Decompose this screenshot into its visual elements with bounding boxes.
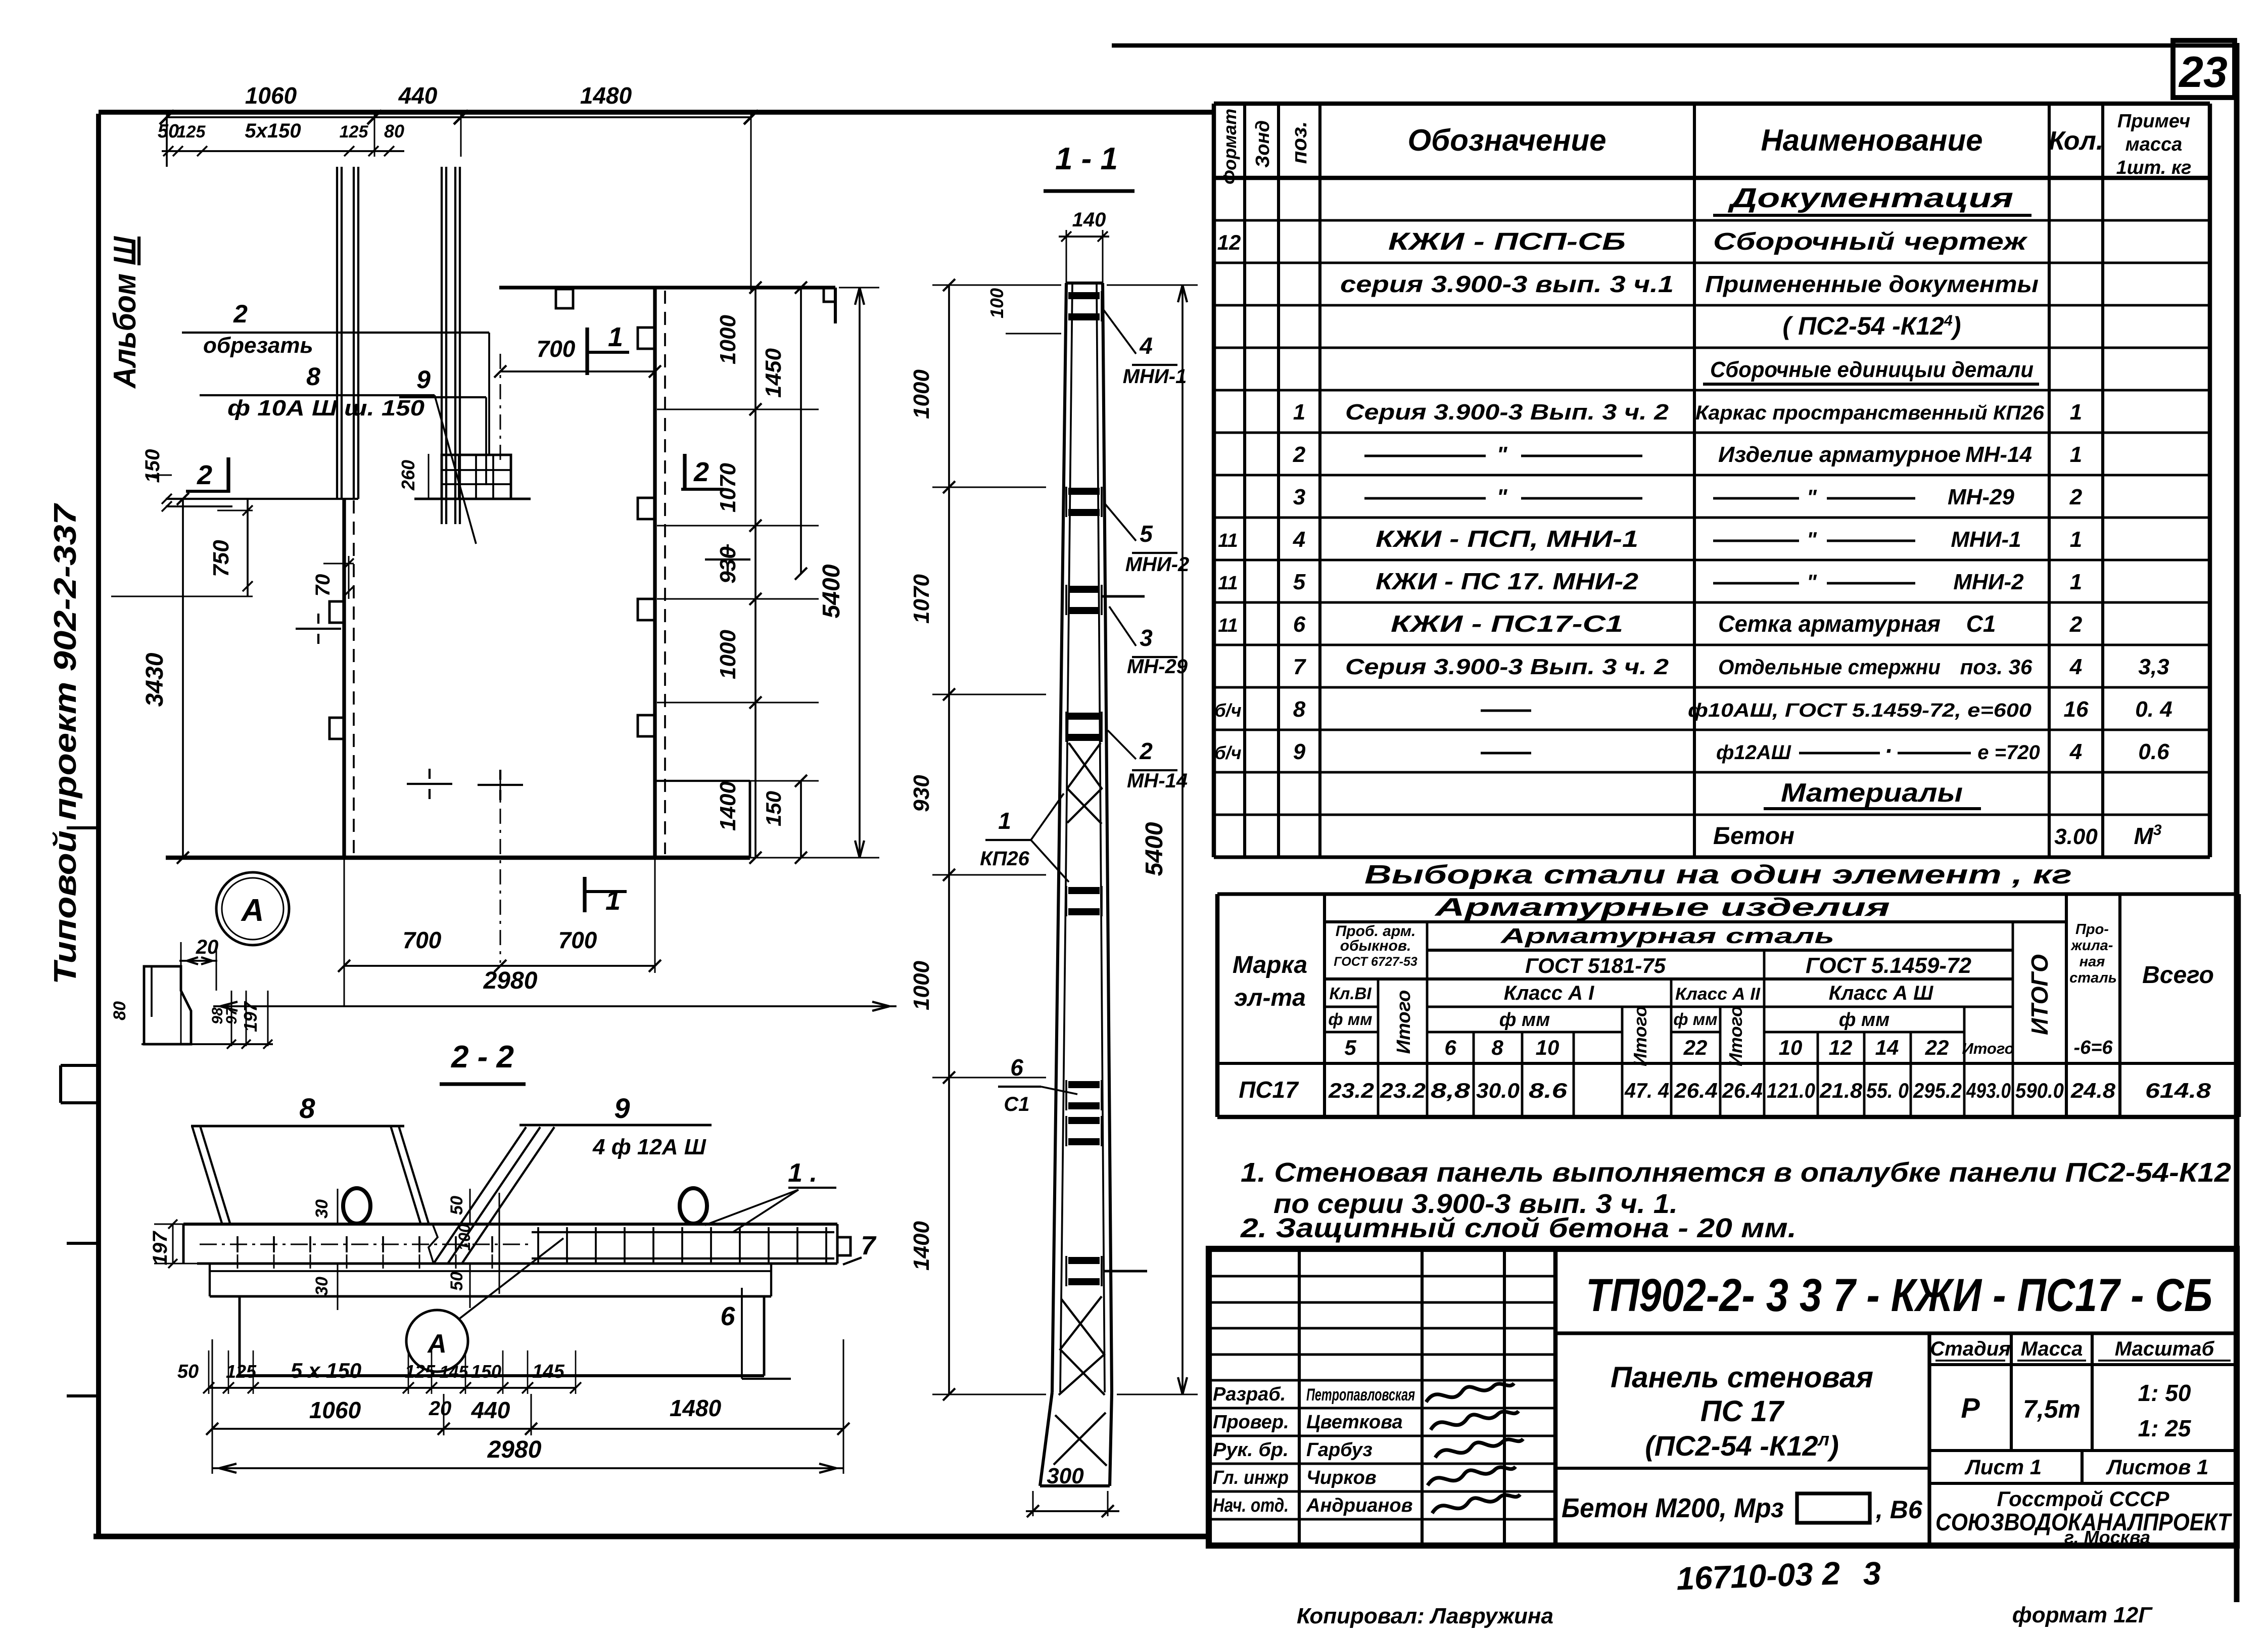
svg-text:1060: 1060 <box>245 82 297 109</box>
svg-text:5400: 5400 <box>818 564 845 618</box>
svg-text:1480: 1480 <box>580 82 632 109</box>
svg-text:КП26: КП26 <box>980 848 1030 870</box>
svg-text:Типовой проект 902-2-337: Типовой проект 902-2-337 <box>48 503 83 985</box>
svg-text:12: 12 <box>1217 230 1241 254</box>
svg-text:Марка: Марка <box>1233 952 1307 978</box>
svg-text:8: 8 <box>306 362 320 391</box>
svg-text:2: 2 <box>197 460 212 490</box>
svg-text:Разраб.: Разраб. <box>1213 1384 1286 1405</box>
svg-text:140: 140 <box>1072 209 1106 231</box>
svg-text:700: 700 <box>537 336 576 362</box>
svg-text:ГОСТ 6727-53: ГОСТ 6727-53 <box>1334 955 1417 969</box>
svg-text:ф 10А Ш ш. 150: ф 10А Ш ш. 150 <box>227 396 425 421</box>
svg-text:4: 4 <box>2069 655 2082 679</box>
svg-text:1шт. кг: 1шт. кг <box>2116 157 2192 178</box>
svg-text:614.8: 614.8 <box>2145 1079 2211 1102</box>
svg-text:1070: 1070 <box>909 574 934 624</box>
svg-text:3: 3 <box>1862 1555 1881 1592</box>
svg-text:300: 300 <box>1047 1464 1084 1488</box>
svg-text:145: 145 <box>532 1361 564 1382</box>
svg-text:2980: 2980 <box>487 1436 542 1463</box>
svg-text:Стадия: Стадия <box>1930 1338 2010 1360</box>
svg-text:8: 8 <box>1293 697 1306 722</box>
svg-text:Панель стеновая: Панель стеновая <box>1611 1361 1873 1394</box>
svg-text:930: 930 <box>909 775 934 812</box>
svg-text:6: 6 <box>1444 1036 1456 1059</box>
svg-text:ПС17: ПС17 <box>1239 1077 1299 1103</box>
svg-text:3: 3 <box>1293 485 1305 509</box>
svg-text:10: 10 <box>1536 1036 1560 1059</box>
svg-text:Масштаб: Масштаб <box>2115 1338 2215 1360</box>
svg-text:(ПС2-54 -К12л): (ПС2-54 -К12л) <box>1645 1429 1838 1462</box>
svg-text:11: 11 <box>1218 530 1238 551</box>
svg-text:7: 7 <box>1293 655 1307 679</box>
svg-text:Кол.: Кол. <box>2049 126 2104 156</box>
svg-text:5: 5 <box>1140 521 1153 547</box>
svg-text:5 х 150: 5 х 150 <box>291 1359 361 1382</box>
svg-text:Кл.ВI: Кл.ВI <box>1330 984 1372 1003</box>
svg-text:440: 440 <box>471 1397 510 1423</box>
svg-text:ф мм: ф мм <box>1499 1009 1550 1031</box>
svg-text:-6=6: -6=6 <box>2073 1037 2113 1058</box>
svg-text:Материалы: Материалы <box>1781 778 1963 808</box>
svg-text:2: 2 <box>1139 738 1153 764</box>
svg-text:МНИ-2: МНИ-2 <box>1125 553 1190 576</box>
svg-text:4: 4 <box>2069 739 2082 764</box>
svg-text:Гарбуз: Гарбуз <box>1306 1439 1373 1461</box>
svg-text:1: 1 <box>998 808 1011 834</box>
svg-text:1060: 1060 <box>309 1397 361 1423</box>
svg-text:Госстрой СССР: Госстрой СССР <box>1997 1487 2169 1511</box>
svg-text:": " <box>1807 528 1817 551</box>
svg-text:20: 20 <box>429 1397 452 1420</box>
svg-text:1: 1 <box>2070 400 2082 425</box>
svg-text:590.0: 590.0 <box>2015 1079 2064 1102</box>
svg-text:С1: С1 <box>1966 611 1996 637</box>
svg-text:МНИ-1: МНИ-1 <box>1123 365 1187 388</box>
svg-text:Формат: Формат <box>1219 109 1240 184</box>
svg-text:Р: Р <box>1961 1392 1980 1424</box>
svg-text:11: 11 <box>1218 615 1238 636</box>
svg-text:1480: 1480 <box>670 1395 722 1421</box>
svg-text:50: 50 <box>447 1272 466 1291</box>
svg-text:7: 7 <box>861 1231 877 1260</box>
svg-text:1000: 1000 <box>716 630 740 679</box>
svg-text:Отдельные стержни: Отдельные стержни <box>1718 655 1941 679</box>
svg-text:125: 125 <box>340 122 369 142</box>
svg-text:МН-14: МН-14 <box>1965 442 2032 467</box>
svg-text:7,5т: 7,5т <box>2023 1395 2081 1423</box>
svg-text:1: 1 <box>2070 570 2082 594</box>
svg-text:260: 260 <box>398 460 418 491</box>
svg-text:121.0: 121.0 <box>1767 1079 1815 1102</box>
svg-text:ная: ная <box>2080 954 2105 970</box>
svg-text:Зонд: Зонд <box>1252 120 1273 168</box>
svg-text:5400: 5400 <box>1141 822 1168 876</box>
svg-text:145: 145 <box>440 1363 469 1382</box>
svg-text:55. 0: 55. 0 <box>1866 1079 1909 1102</box>
svg-text:80: 80 <box>384 121 404 142</box>
svg-text:МНИ-1: МНИ-1 <box>1951 527 2021 552</box>
svg-text:": " <box>1807 485 1817 509</box>
svg-text:": " <box>1497 485 1508 509</box>
svg-text:9: 9 <box>614 1092 630 1124</box>
svg-text:Цветкова: Цветкова <box>1306 1412 1403 1433</box>
svg-text:9: 9 <box>416 365 431 394</box>
svg-text:3: 3 <box>1140 625 1153 651</box>
svg-text:2: 2 <box>693 457 709 487</box>
svg-text:ф12АШ: ф12АШ <box>1716 741 1791 764</box>
svg-text:700: 700 <box>403 927 442 953</box>
svg-text:30: 30 <box>312 1199 332 1219</box>
svg-text:2: 2 <box>2069 612 2083 637</box>
svg-text:1: 1 <box>1293 400 1305 425</box>
svg-text:МНИ-2: МНИ-2 <box>1953 570 2024 594</box>
svg-text:1: 25: 1: 25 <box>2138 1415 2192 1441</box>
svg-text:Документация: Документация <box>1728 183 2013 213</box>
svg-text:Рук. бр.: Рук. бр. <box>1213 1439 1289 1461</box>
svg-text:1: 1 <box>2070 442 2082 467</box>
svg-text:Петропавловская: Петропавловская <box>1306 1385 1415 1405</box>
svg-text:8: 8 <box>1491 1036 1503 1059</box>
svg-text:б/ч: б/ч <box>1214 700 1241 721</box>
svg-text:Итого: Итого <box>1725 1006 1746 1066</box>
svg-text:23.2: 23.2 <box>1328 1079 1374 1102</box>
svg-text:Нач. отд.: Нач. отд. <box>1213 1495 1289 1516</box>
svg-text:21.8: 21.8 <box>1819 1079 1863 1102</box>
svg-text:30: 30 <box>312 1277 332 1296</box>
svg-text:26.4: 26.4 <box>1722 1079 1763 1102</box>
svg-text:70: 70 <box>312 574 334 597</box>
svg-text:Сборочный чертеж: Сборочный чертеж <box>1713 228 2028 255</box>
svg-text:100: 100 <box>455 1224 474 1251</box>
svg-text:750: 750 <box>209 540 233 577</box>
svg-text:100: 100 <box>986 288 1007 318</box>
svg-text:Сетка арматурная: Сетка арматурная <box>1718 611 1941 637</box>
svg-text:( ПС2-54 -К124): ( ПС2-54 -К124) <box>1783 312 1961 340</box>
svg-text:1000: 1000 <box>716 315 740 364</box>
svg-text:Изделие арматурное: Изделие арматурное <box>1718 442 1961 467</box>
svg-text:1 - 1: 1 - 1 <box>1055 142 1118 176</box>
svg-text:Листов 1: Листов 1 <box>2106 1455 2209 1479</box>
svg-text:3.00: 3.00 <box>2054 824 2098 849</box>
svg-text:16: 16 <box>2064 697 2089 722</box>
svg-text:КЖИ - ПС 17. МНИ-2: КЖИ - ПС 17. МНИ-2 <box>1376 568 1638 594</box>
svg-text:КЖИ - ПСП, МНИ-1: КЖИ - ПСП, МНИ-1 <box>1376 526 1638 552</box>
svg-text:30.0: 30.0 <box>1476 1079 1520 1102</box>
svg-text:А: А <box>241 893 264 928</box>
svg-text:": " <box>1497 442 1508 467</box>
svg-text:5: 5 <box>1293 570 1306 594</box>
svg-text:поз.: поз. <box>1287 121 1311 164</box>
svg-text:1: 1 <box>605 885 621 916</box>
svg-text:23: 23 <box>2178 48 2228 97</box>
svg-text:Наименование: Наименование <box>1761 123 1982 157</box>
svg-text:Итого: Итого <box>1962 1040 2014 1057</box>
svg-text:1070: 1070 <box>716 463 740 512</box>
svg-text:·: · <box>1884 738 1893 765</box>
svg-text:Бетон: Бетон <box>1713 823 1794 850</box>
svg-text:формат 12Г: формат 12Г <box>2012 1603 2153 1627</box>
svg-text:Выборка стали на: Выборка стали на один элемент , кг <box>1364 860 2072 890</box>
svg-text:Серия 3.900-3 Вып. 3 ч. 2: Серия 3.900-3 Вып. 3 ч. 2 <box>1345 400 1669 425</box>
svg-text:Чирков: Чирков <box>1306 1467 1377 1488</box>
svg-text:Копировал: Лавружина: Копировал: Лавружина <box>1297 1604 1553 1628</box>
svg-text:197: 197 <box>240 1001 261 1032</box>
svg-text:масса: масса <box>2125 134 2183 155</box>
svg-text:ф10АШ, ГОСТ 5.1459-72, е=600: ф10АШ, ГОСТ 5.1459-72, е=600 <box>1688 700 2031 721</box>
svg-text:24.8: 24.8 <box>2070 1079 2116 1102</box>
svg-text:ИТОГО: ИТОГО <box>2026 954 2053 1035</box>
svg-text:1450: 1450 <box>761 348 786 398</box>
svg-text:Бетон М200, Мрз: Бетон М200, Мрз <box>1562 1493 1784 1523</box>
svg-text:20: 20 <box>196 936 219 958</box>
svg-text:26.4: 26.4 <box>1674 1079 1718 1102</box>
svg-text:4: 4 <box>1139 333 1153 359</box>
svg-text:4: 4 <box>1293 527 1305 552</box>
svg-text:1 .: 1 . <box>788 1158 817 1188</box>
svg-text:Про-: Про- <box>2075 921 2109 938</box>
svg-text:80: 80 <box>110 1001 129 1020</box>
svg-text:150: 150 <box>141 449 164 483</box>
svg-text:6: 6 <box>1010 1054 1023 1081</box>
svg-text:ф мм: ф мм <box>1839 1009 1889 1031</box>
svg-text:Примеч: Примеч <box>2117 111 2190 132</box>
svg-text:Класс А Ш: Класс А Ш <box>1829 982 1933 1004</box>
svg-text:серия 3.900-3 вып. 3 ч.1: серия 3.900-3 вып. 3 ч.1 <box>1340 271 1674 297</box>
svg-text:6: 6 <box>1293 612 1306 637</box>
svg-text:22: 22 <box>1683 1036 1708 1059</box>
svg-text:КЖИ - ПС17-С1: КЖИ - ПС17-С1 <box>1391 611 1623 637</box>
svg-text:обрезать: обрезать <box>203 333 313 358</box>
svg-text:16710-03 2: 16710-03 2 <box>1676 1555 1840 1597</box>
svg-text:Итого: Итого <box>1630 1006 1650 1066</box>
svg-text:ф мм: ф мм <box>1673 1010 1717 1029</box>
svg-text:8: 8 <box>299 1092 315 1124</box>
svg-text:23.2: 23.2 <box>1380 1079 1426 1102</box>
svg-text:50: 50 <box>177 1361 199 1382</box>
svg-text:2. Защитный слой бетон: 2. Защитный слой бетона - 20 мм. <box>1240 1213 1797 1243</box>
svg-text:1: 50: 1: 50 <box>2138 1380 2191 1406</box>
svg-text:Примененные документы: Примененные документы <box>1705 271 2039 297</box>
svg-text:50: 50 <box>447 1196 466 1215</box>
svg-text:Андрианов: Андрианов <box>1306 1495 1413 1516</box>
svg-text:2980: 2980 <box>483 967 538 994</box>
svg-text:493.0: 493.0 <box>1966 1079 2011 1102</box>
svg-text:Каркас пространственный КП26: Каркас пространственный КП26 <box>1695 402 2045 424</box>
svg-text:125: 125 <box>226 1361 257 1382</box>
svg-text:9: 9 <box>1293 739 1306 764</box>
svg-text:ф мм: ф мм <box>1328 1010 1372 1029</box>
svg-text:12: 12 <box>1829 1036 1853 1059</box>
svg-text:11: 11 <box>1218 573 1238 594</box>
svg-text:295.2: 295.2 <box>1913 1079 1962 1102</box>
svg-text:0.6: 0.6 <box>2138 739 2169 764</box>
svg-text:обыкнов.: обыкнов. <box>1340 938 1411 954</box>
svg-text:2: 2 <box>1293 442 1306 467</box>
svg-text:22: 22 <box>1925 1036 1949 1059</box>
svg-text:197: 197 <box>149 1231 171 1265</box>
svg-text:125: 125 <box>177 122 206 142</box>
svg-text:ТП902-2- 3 3 7 - КЖИ - ПС17: ТП902-2- 3 3 7 - КЖИ - ПС17 - СБ <box>1586 1270 2212 1321</box>
svg-text:2 - 2: 2 - 2 <box>451 1040 514 1075</box>
svg-text:1000: 1000 <box>909 961 934 1010</box>
svg-text:440: 440 <box>398 82 438 109</box>
svg-text:6: 6 <box>721 1302 736 1331</box>
svg-text:М3: М3 <box>2134 822 2161 849</box>
svg-text:сталь: сталь <box>2069 970 2117 986</box>
svg-text:МН-29: МН-29 <box>1948 485 2015 509</box>
svg-text:Арматурная сталь: Арматурная сталь <box>1500 924 1834 948</box>
svg-text:150: 150 <box>762 791 785 826</box>
svg-text:МН-14: МН-14 <box>1127 770 1188 792</box>
svg-text:поз. 36: поз. 36 <box>1960 655 2033 679</box>
svg-text:КЖИ - ПСП-СБ: КЖИ - ПСП-СБ <box>1388 228 1626 255</box>
svg-text:1. Стеновая панель: 1. Стеновая панель выполняется в опалубк… <box>1241 1157 2231 1188</box>
svg-text:2: 2 <box>233 300 248 328</box>
svg-text:ГОСТ 5.1459-72: ГОСТ 5.1459-72 <box>1806 953 1972 978</box>
svg-text:Всего: Всего <box>2142 962 2214 989</box>
svg-text:Итого: Итого <box>1393 990 1414 1054</box>
svg-text:1400: 1400 <box>716 781 740 831</box>
svg-text:е =720: е =720 <box>1977 741 2040 764</box>
svg-text:4 ф 12А Ш: 4 ф 12А Ш <box>592 1135 706 1159</box>
svg-text:Класс А I: Класс А I <box>1504 982 1594 1004</box>
svg-text:1400: 1400 <box>909 1221 934 1271</box>
svg-text:эл-та: эл-та <box>1234 985 1306 1011</box>
svg-text:ПС 17: ПС 17 <box>1700 1395 1785 1428</box>
svg-text:1000: 1000 <box>909 369 934 419</box>
svg-text:Альбом Ш: Альбом Ш <box>108 236 143 389</box>
svg-text:3430: 3430 <box>141 652 168 707</box>
svg-text:жила-: жила- <box>2070 938 2113 954</box>
svg-text:2: 2 <box>2069 485 2083 509</box>
svg-text:1: 1 <box>2070 527 2082 552</box>
svg-text:Провер.: Провер. <box>1213 1412 1289 1433</box>
svg-text:1: 1 <box>608 322 623 352</box>
svg-text:ГОСТ 5181-75: ГОСТ 5181-75 <box>1525 954 1666 977</box>
svg-text:0. 4: 0. 4 <box>2135 697 2172 722</box>
svg-text:150: 150 <box>471 1361 501 1382</box>
svg-text:": " <box>1807 570 1817 594</box>
svg-text:, В6: , В6 <box>1875 1496 1923 1524</box>
svg-text:Обозначение: Обозначение <box>1407 123 1606 157</box>
svg-text:47. 4: 47. 4 <box>1624 1079 1669 1102</box>
svg-text:б/ч: б/ч <box>1214 742 1241 763</box>
svg-text:10: 10 <box>1779 1036 1803 1059</box>
svg-text:Арматурные изделия: Арматурные изделия <box>1434 893 1890 921</box>
svg-text:Сборочные единицыи детали: Сборочные единицыи детали <box>1710 357 2034 382</box>
svg-text:14: 14 <box>1875 1036 1899 1059</box>
svg-text:С1: С1 <box>1004 1093 1029 1115</box>
svg-text:Серия 3.900-3 Вып. 3 ч. 2: Серия 3.900-3 Вып. 3 ч. 2 <box>1345 655 1669 679</box>
svg-text:Класс А II: Класс А II <box>1675 985 1761 1004</box>
svg-text:г. Москва: г. Москва <box>2064 1527 2150 1548</box>
svg-text:5: 5 <box>1344 1036 1356 1059</box>
svg-text:А: А <box>427 1329 447 1359</box>
svg-text:8,8: 8,8 <box>1431 1079 1471 1102</box>
svg-text:Гл. инжр: Гл. инжр <box>1213 1467 1289 1488</box>
svg-text:5х150: 5х150 <box>245 120 301 142</box>
svg-text:Масса: Масса <box>2021 1338 2083 1360</box>
svg-text:Лист 1: Лист 1 <box>1964 1455 2042 1479</box>
svg-text:50: 50 <box>158 121 179 142</box>
svg-text:8.6: 8.6 <box>1529 1079 1568 1102</box>
svg-text:3,3: 3,3 <box>2138 655 2169 679</box>
svg-text:МН-29: МН-29 <box>1127 656 1188 678</box>
svg-text:700: 700 <box>558 927 597 953</box>
